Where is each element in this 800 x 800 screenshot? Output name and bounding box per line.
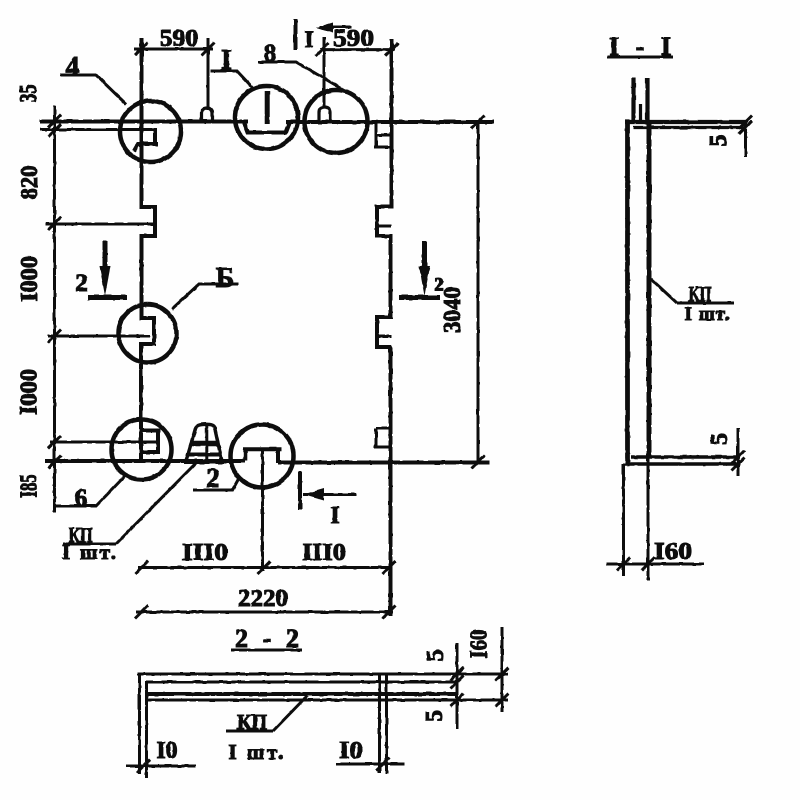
top-right corner pocket (374, 123, 391, 147)
ticks 1110 (135, 561, 396, 574)
sec2 dim line 10 left (126, 765, 196, 768)
extension line x=208 (207, 38, 210, 110)
sec2 KP underline (226, 730, 273, 733)
svg-text:6: 6 (75, 485, 88, 512)
svg-text:2: 2 (75, 270, 88, 297)
svg-text:I000: I000 (17, 256, 43, 302)
ticks 5 top (739, 116, 752, 135)
section cut 2 right: arrow (422, 241, 427, 272)
section cut 2 left: arrow (103, 241, 108, 272)
label 2 leader (193, 478, 239, 490)
top rebate second line (40, 128, 155, 131)
svg-text:I шт.: I шт. (685, 304, 730, 325)
svg-text:590: 590 (333, 26, 374, 52)
sec2 mid leg left (378, 675, 381, 773)
svg-text:2: 2 (434, 275, 444, 296)
svg-text:III0: III0 (302, 540, 346, 566)
sec2 inner top line (146, 681, 457, 684)
detail circle top-middle (235, 86, 298, 149)
title 2-2 underline (231, 649, 302, 652)
sec2 dim 160 line (501, 627, 504, 712)
KP underline I-I (677, 302, 734, 305)
section cut 2 right: bar (399, 295, 440, 300)
panel right edge (extends below as dimension extension) (377, 39, 393, 616)
svg-text:5: 5 (706, 135, 732, 147)
svg-text:2220: 2220 (238, 586, 288, 612)
svg-text:Б: Б (216, 263, 235, 294)
svg-text:590: 590 (160, 26, 199, 52)
bottom dim line 1110 (138, 566, 392, 569)
dim line 160 (606, 563, 704, 566)
section cut I bottom: arrow (303, 493, 356, 496)
label B leader (172, 284, 238, 309)
extension below right (647, 457, 650, 580)
sec2 KP leader (273, 696, 307, 731)
cone plug (item 2) (186, 424, 222, 461)
left chain extension y=442 (50, 441, 158, 444)
svg-text:I: I (330, 503, 339, 529)
svg-text:I85: I85 (17, 475, 43, 498)
section cut I top: bar (294, 19, 298, 50)
sec2 left leg inner (145, 681, 148, 778)
panel left edge with notches (141, 38, 155, 462)
svg-text:I0: I0 (339, 738, 363, 764)
left chain extension y=336 (48, 335, 150, 338)
tick 10 left (137, 760, 150, 773)
lifting loop right (n-shape, detail 8) (319, 107, 330, 122)
cone base (thicker on edge) (184, 459, 224, 464)
svg-text:I0: I0 (157, 738, 178, 764)
detail circle 6 (112, 420, 172, 480)
top dim line 590 right (320, 48, 395, 51)
dim 5 top right: line (744, 121, 747, 157)
loop pin in top-middle circle (265, 91, 270, 124)
svg-text:I60: I60 (467, 630, 493, 659)
svg-text:I60: I60 (654, 539, 692, 565)
sec2 KP line (146, 692, 457, 696)
section cut I top: arrow (319, 26, 352, 29)
left bottom pocket (detail 6) (142, 431, 159, 453)
label 4 leader (60, 75, 126, 104)
sec2 bottom line (146, 699, 508, 702)
KP leader I-I (651, 279, 677, 303)
top flange outer line (625, 120, 747, 124)
ticks 590 right (316, 43, 399, 56)
cone band 1 (191, 441, 220, 447)
left chain extension y=224 (45, 223, 155, 226)
web inner line (KP) (647, 122, 652, 457)
bottom flange inner line (631, 455, 740, 459)
label 8 leader (258, 62, 344, 90)
ticks 160 (617, 558, 655, 571)
KP leader diagonal (116, 463, 196, 544)
right dim 3040 line (477, 122, 480, 462)
right notch 2 middle bar (377, 335, 392, 338)
svg-text:5: 5 (423, 650, 449, 662)
svg-text:3040: 3040 (440, 287, 466, 333)
lifting loop left (n-shape) (202, 108, 213, 122)
tick 10 right (377, 758, 390, 771)
top recess (loop pocket) in top-middle circle (244, 122, 290, 133)
extension line x=324 (323, 37, 326, 108)
loop wire middle short (639, 104, 642, 121)
detail circle bottom-middle (231, 425, 294, 488)
ticks 590 left (135, 43, 215, 56)
panel bottom edge (left segment) (45, 459, 245, 463)
svg-text:5: 5 (707, 433, 733, 445)
section cut I bottom: bar (298, 471, 302, 510)
title underline (607, 56, 673, 59)
panel top edge (left segment) (40, 120, 248, 124)
detail circle 8 (305, 90, 368, 153)
cone centerline (205, 425, 208, 461)
panel top edge (right segment, extends right as 3040 extension) (286, 120, 494, 124)
left dimension chain line (53, 106, 56, 512)
sec2 mid leg right (385, 675, 388, 774)
top flange inner line (633, 126, 747, 129)
sec2 ticks 160 (496, 668, 509, 707)
bottom-right pocket (374, 428, 391, 447)
sec2 left leg outer (138, 673, 141, 774)
loop wire left (631, 78, 635, 121)
sec2 dim line 10 right (336, 763, 404, 766)
KP underline (63, 543, 116, 546)
bottom hat center pin / dimension extension (261, 449, 264, 571)
section cut 2 left: bar (88, 295, 127, 300)
svg-text:4: 4 (66, 52, 80, 83)
ticks 3040 (472, 116, 485, 469)
svg-text:5: 5 (422, 710, 448, 722)
svg-text:I000: I000 (17, 369, 43, 415)
panel bottom edge (right segment, extends right) (278, 461, 490, 465)
svg-text:35: 35 (16, 85, 42, 103)
svg-text:I шт.: I шт. (62, 540, 116, 564)
label 6 leader (56, 476, 125, 506)
web outer line (625, 122, 630, 464)
sec2 top line (137, 673, 508, 676)
sec2 dim 5 line (456, 643, 459, 729)
cone band 2 (188, 453, 222, 457)
bottom flange outer line (625, 462, 740, 466)
svg-text:III0: III0 (182, 540, 228, 566)
top rebate step bottom (134, 144, 158, 151)
extension below left (622, 464, 625, 576)
detail circle 4 (120, 101, 181, 162)
detail circle B (119, 305, 177, 363)
ticks 5 bottom (732, 451, 745, 471)
right notch 1 middle bar (377, 225, 392, 228)
svg-text:I шт.: I шт. (229, 740, 284, 764)
dim 5 bottom right: line (737, 428, 740, 476)
sec2 ticks 5 (451, 668, 464, 707)
top dim line 590 left (134, 48, 213, 51)
svg-text:820: 820 (17, 166, 43, 200)
label 1 leader (211, 71, 253, 88)
bottom dim line 2220 (136, 611, 393, 614)
ticks 2220 (135, 606, 396, 619)
left chain ticks (48, 115, 61, 469)
bottom hat recess (bottom-middle circle) (244, 449, 282, 463)
loop wire right (645, 78, 649, 122)
svg-text:I: I (305, 27, 314, 52)
top rebate step vertical (153, 128, 157, 144)
